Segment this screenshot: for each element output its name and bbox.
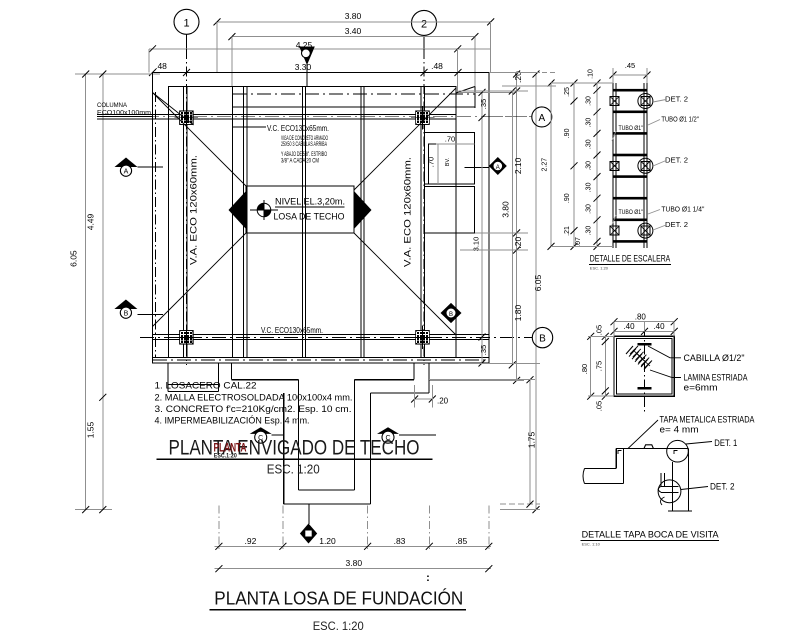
svg-text:PLANTA ENVIGADO DE TECHO: PLANTA ENVIGADO DE TECHO (169, 437, 420, 460)
svg-text:.48: .48 (155, 61, 167, 71)
svg-text:.45: .45 (625, 61, 635, 70)
svg-text:NIVEL EL.3,20m.: NIVEL EL.3,20m. (275, 197, 345, 207)
svg-text:.30: .30 (586, 182, 593, 192)
svg-text:3.10: 3.10 (472, 237, 481, 252)
svg-text:.20: .20 (437, 397, 449, 406)
svg-text:1.75: 1.75 (527, 431, 537, 448)
svg-text:.20: .20 (513, 237, 523, 249)
svg-text:3.30: 3.30 (295, 62, 312, 72)
svg-text:2.10: 2.10 (513, 157, 523, 174)
svg-text:6.05: 6.05 (533, 274, 543, 291)
svg-text:.40: .40 (653, 322, 665, 331)
svg-text:1. LOSACERO CAL.22: 1. LOSACERO CAL.22 (155, 381, 257, 392)
svg-text:A: A (538, 113, 545, 124)
svg-text:B: B (449, 312, 453, 318)
svg-text:3. CONCRETO f'c=210Kg/cm2.: 3. CONCRETO f'c=210Kg/cm2. Esp. 10 cm. (155, 404, 352, 415)
svg-text:DET. 1: DET. 1 (714, 438, 737, 448)
svg-text:.80: .80 (635, 313, 647, 322)
svg-text:.92: .92 (244, 536, 256, 546)
svg-text:.05: .05 (595, 325, 604, 335)
svg-text:B: B (539, 334, 546, 345)
svg-text:3.80: 3.80 (501, 201, 511, 218)
svg-text::: : (426, 572, 430, 584)
svg-text:.05: .05 (595, 401, 604, 411)
svg-text:.35: .35 (479, 345, 488, 355)
svg-text:1: 1 (183, 17, 189, 29)
svg-text:.70: .70 (427, 157, 436, 167)
svg-text:V.A. ECO 120x60mm.: V.A. ECO 120x60mm. (403, 157, 413, 267)
svg-text:A: A (496, 165, 500, 171)
svg-text:ECO100x100mm: ECO100x100mm (97, 110, 151, 117)
svg-text:V.C. ECO130x65mm.: V.C. ECO130x65mm. (267, 124, 329, 133)
svg-text:e=6mm: e=6mm (684, 383, 718, 393)
svg-text:6.05: 6.05 (69, 250, 79, 267)
svg-text:.90: .90 (564, 128, 571, 138)
svg-text:2. MALLA ELECTROSOLDADA 100: 2. MALLA ELECTROSOLDADA 100x100x4 mm. (155, 392, 353, 403)
svg-text:1.20: 1.20 (319, 536, 336, 546)
svg-text:DET. 2: DET. 2 (665, 156, 688, 165)
svg-text:TUBO Ø1 1/2": TUBO Ø1 1/2" (661, 114, 699, 123)
svg-text:2: 2 (421, 18, 427, 30)
svg-text:.30: .30 (586, 161, 593, 171)
svg-text:ESC. 1:20: ESC. 1:20 (590, 266, 609, 271)
svg-text:.25: .25 (564, 87, 571, 97)
svg-text:.30: .30 (586, 96, 593, 106)
svg-text:.48: .48 (431, 61, 443, 71)
svg-text:V.C. ECO130x65mm.: V.C. ECO130x65mm. (261, 326, 323, 335)
svg-text:.10: .10 (588, 69, 595, 79)
svg-text:DETALLE TAPA BOCA DE VISIT: DETALLE TAPA BOCA DE VISITA (582, 530, 720, 540)
svg-text:.30: .30 (586, 204, 593, 214)
svg-text:V.A. ECO 120x60mm.: V.A. ECO 120x60mm. (188, 155, 198, 265)
svg-text:.30: .30 (586, 118, 593, 128)
svg-text:e= 4 mm: e= 4 mm (660, 425, 699, 435)
svg-text:1.55: 1.55 (86, 421, 96, 438)
svg-text:LOSA DE TECHO: LOSA DE TECHO (274, 212, 345, 222)
svg-text:.83: .83 (394, 536, 406, 546)
svg-text:TUBO Ø1": TUBO Ø1" (619, 125, 644, 132)
svg-text:TUBO Ø1 1/4": TUBO Ø1 1/4" (661, 204, 704, 213)
svg-text:BV.: BV. (445, 157, 451, 166)
svg-text:.21: .21 (564, 226, 571, 236)
svg-text:.75: .75 (595, 361, 604, 371)
svg-text:3.40: 3.40 (345, 26, 362, 36)
svg-text:4.49: 4.49 (86, 213, 96, 230)
svg-text:A: A (124, 169, 129, 176)
svg-text:DET. 2: DET. 2 (665, 220, 688, 229)
svg-text:.85: .85 (455, 536, 467, 546)
svg-text:ESC. 1:20: ESC. 1:20 (267, 463, 320, 477)
svg-text:ESC. 1:10: ESC. 1:10 (582, 542, 601, 547)
svg-text:PLANTA LOSA DE FUNDACIÓN: PLANTA LOSA DE FUNDACIÓN (214, 588, 463, 609)
svg-text:.80: .80 (580, 364, 589, 374)
svg-text:LAMINA ESTRIADA: LAMINA ESTRIADA (684, 373, 748, 383)
svg-text:.07: .07 (575, 237, 582, 247)
svg-text:TAPA METALICA ESTRIADA: TAPA METALICA ESTRIADA (660, 414, 755, 424)
svg-text:3/8" A CADA 20 CM: 3/8" A CADA 20 CM (281, 158, 319, 165)
svg-text:CABILLA Ø1/2": CABILLA Ø1/2" (684, 353, 745, 363)
svg-text:DET. 2: DET. 2 (665, 95, 688, 104)
svg-text:B: B (124, 311, 129, 318)
svg-text:ESC. 1:20: ESC. 1:20 (313, 619, 364, 633)
svg-text:4. IMPERMEABILIZACIÓN Esp.: 4. IMPERMEABILIZACIÓN Esp. 4 mm. (155, 416, 310, 427)
svg-text:.90: .90 (564, 193, 571, 203)
svg-text:.70: .70 (445, 135, 455, 144)
svg-text:.35: .35 (479, 99, 488, 109)
svg-text:DET. 2: DET. 2 (710, 482, 735, 492)
svg-text:.30: .30 (586, 226, 593, 236)
svg-text:1.80: 1.80 (513, 304, 523, 321)
svg-text:ESC.1:20: ESC.1:20 (214, 452, 237, 459)
svg-text:3.80: 3.80 (346, 558, 363, 568)
svg-text:2.27: 2.27 (542, 158, 549, 172)
svg-text:DETALLE DE ESCALERA: DETALLE DE ESCALERA (590, 254, 671, 264)
svg-text:TUBO Ø1": TUBO Ø1" (619, 209, 644, 216)
svg-text:.40: .40 (623, 322, 635, 331)
svg-text:COLUMNA: COLUMNA (97, 102, 127, 109)
svg-text:.30: .30 (586, 139, 593, 149)
svg-text:25X50 3 CABILLAS ARRIBA: 25X50 3 CABILLAS ARRIBA (281, 141, 327, 148)
svg-text:3.80: 3.80 (345, 11, 362, 21)
